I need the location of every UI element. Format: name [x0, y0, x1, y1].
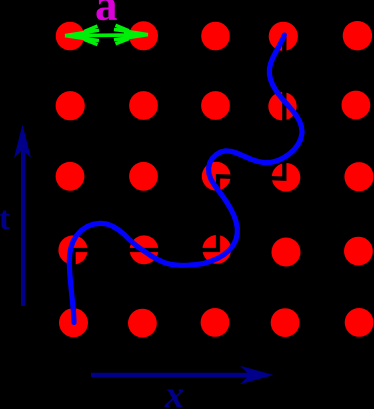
lattice site (2,1) [56, 91, 85, 120]
lattice site (5,4) [271, 308, 300, 337]
lattice site (3,1) [56, 162, 85, 191]
x axis arrowhead [240, 366, 274, 384]
lattice site (1,3) [201, 22, 230, 51]
particle worldline (blue wavy curve) [69, 35, 302, 323]
label a (lattice spacing) [95, 0, 118, 31]
lattice site (3,5) [344, 162, 373, 191]
label t (time axis) [0, 201, 10, 238]
lattice site (2,4) [268, 92, 296, 120]
lattice site (5,3) [201, 308, 230, 337]
lattice site (4,4) [272, 238, 301, 267]
t axis shaft [21, 140, 25, 306]
label x (space axis) [165, 373, 184, 409]
green arrow left head solid wedge [65, 32, 89, 40]
lattice site (1,2) [129, 21, 158, 50]
lattice site (1,4) [269, 22, 298, 51]
lattice site (4,3) [202, 235, 231, 264]
lattice site (2,3) [201, 91, 230, 120]
t axis arrowhead [14, 125, 31, 159]
lattice site (3,3) [202, 162, 231, 191]
lattice site (3,4) [272, 163, 301, 192]
lattice site (3,2) [129, 162, 158, 191]
green arrow right head solid wedge [124, 31, 148, 39]
lattice site (1,5) [343, 21, 372, 50]
lattice site (4,1) [58, 235, 87, 264]
lattice site (5,1) [59, 308, 88, 337]
lattice site (2,2) [129, 91, 158, 120]
lattice site (2,5) [342, 91, 371, 120]
lattice spacing arrow (green double-headed) : shaft [86, 33, 127, 37]
lattice site (4,2) [130, 235, 159, 264]
green arrow right head [114, 25, 148, 44]
black lattice-link path (visible only where it crosses the red sites) [74, 35, 285, 323]
lattice site (4,5) [344, 237, 373, 266]
lattice site (1,1) [56, 22, 85, 51]
x axis shaft [91, 373, 252, 377]
lattice site (5,2) [128, 309, 157, 338]
green arrow left head [65, 26, 99, 45]
lattice site (5,5) [345, 308, 374, 337]
